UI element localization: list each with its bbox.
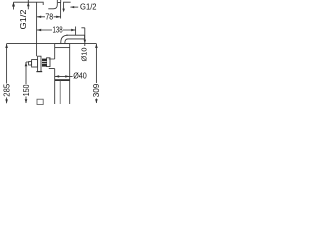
leader L with down arrow <box>64 2 71 9</box>
leader Ø40 <box>55 75 73 77</box>
tube stub right <box>58 0 61 2</box>
column seam thick <box>55 79 70 81</box>
dimension 285 <box>6 44 8 104</box>
column body <box>55 43 70 45</box>
svg-text:Ø40: Ø40 <box>73 71 87 80</box>
arrow up left <box>13 2 15 9</box>
tube top left bend <box>48 0 57 9</box>
column inner line <box>59 81 61 104</box>
leader stem G1/2 left <box>27 0 29 9</box>
spout elbow <box>61 35 68 43</box>
long horizontal reference at body top <box>7 43 97 45</box>
knob stub <box>29 62 32 65</box>
leader dash G1/2 right <box>70 6 78 8</box>
svg-text:78: 78 <box>45 12 53 22</box>
svg-text:Ø10: Ø10 <box>82 47 89 61</box>
dimension 150 <box>26 62 29 103</box>
sleeve <box>47 58 50 67</box>
bottom square <box>37 99 43 104</box>
connection arm <box>49 59 55 69</box>
dimension 78 <box>37 16 61 18</box>
svg-text:138: 138 <box>53 25 63 35</box>
wall line <box>36 2 38 56</box>
svg-text:309: 309 <box>92 83 101 97</box>
hex nut <box>42 59 47 67</box>
leader Ø10 <box>81 28 84 46</box>
top reference line <box>14 2 44 5</box>
dimension 138 <box>37 29 76 31</box>
svg-text:150: 150 <box>22 84 31 96</box>
spout tube horizontal <box>66 35 85 39</box>
wall flange <box>38 56 41 71</box>
svg-text:G1/2: G1/2 <box>80 3 97 12</box>
knob <box>32 60 38 67</box>
svg-text:285: 285 <box>2 83 11 96</box>
dimension 309 <box>95 44 97 103</box>
svg-text:G1/2: G1/2 <box>19 9 28 30</box>
